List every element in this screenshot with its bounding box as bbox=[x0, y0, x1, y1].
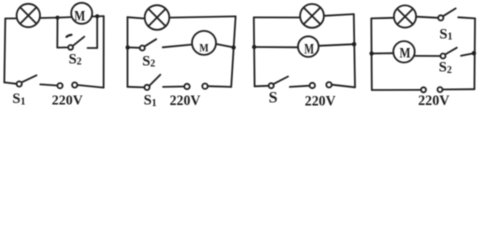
switch S pivot C3 bbox=[269, 83, 274, 88]
switch S2 contact tick C1 bbox=[67, 35, 72, 37]
wire motor to right rail C1 bbox=[92, 15, 104, 17]
wire motor to switch S2 C4 bbox=[415, 55, 441, 57]
battery terminal left C3 bbox=[310, 83, 315, 88]
wire right rail C3 bbox=[354, 14, 355, 87]
switch S2 lever C2 bbox=[145, 39, 157, 46]
wire bottom-left to terminal C4 bbox=[372, 89, 421, 91]
lamp L2 (circle with X) bbox=[145, 5, 170, 30]
wire right rail C1 bbox=[103, 16, 105, 88]
battery terminal left C4 bbox=[421, 87, 426, 92]
wire terminal to bottom-right corner C3 bbox=[332, 85, 355, 88]
switch S2 lever C1 bbox=[73, 37, 85, 46]
wire switch to node H C4 bbox=[461, 53, 474, 56]
battery terminal right C2 bbox=[202, 84, 207, 89]
svg-text:M: M bbox=[199, 41, 208, 55]
wire node A to motor C1 bbox=[58, 16, 72, 19]
svg-text:S: S bbox=[269, 90, 278, 107]
wire switch to top-right corner C4 bbox=[458, 17, 475, 18]
svg-text:S2: S2 bbox=[142, 53, 155, 69]
svg-text:220V: 220V bbox=[305, 93, 336, 109]
node E junction dot C3 bbox=[252, 45, 256, 49]
node F junction dot C3 bbox=[352, 42, 356, 46]
wire bottom-left to switch S1 C2 bbox=[128, 86, 145, 89]
switch S2 pivot C2 bbox=[140, 46, 145, 51]
switch S1 lever C1 bbox=[22, 75, 37, 82]
switch S lever C3 bbox=[273, 77, 288, 85]
switch S1 lever C2 bbox=[149, 75, 160, 86]
svg-text:220V: 220V bbox=[52, 93, 83, 108]
wire bottom-left to switch S C3 bbox=[255, 85, 269, 88]
wire lamp to node A C1 bbox=[40, 17, 58, 19]
lamp L4 (circle with X) bbox=[394, 5, 416, 27]
wire lamp to top-right corner C2 bbox=[169, 16, 235, 17]
wire switch to inner box right C1 bbox=[88, 47, 98, 49]
svg-text:M: M bbox=[400, 46, 411, 62]
wire node C to switch S2 C2 bbox=[128, 46, 140, 48]
wire terminal to bottom-right corner C2 bbox=[208, 85, 232, 88]
wire node E to motor C3 bbox=[254, 46, 298, 48]
wire left rail C2 bbox=[127, 17, 129, 87]
wire switch to terminal C2 bbox=[163, 86, 184, 88]
svg-text:M: M bbox=[304, 41, 314, 57]
switch S1 pivot C1 bbox=[17, 81, 22, 86]
battery terminal left C1 bbox=[57, 83, 62, 88]
wire switch to terminal C1 bbox=[40, 84, 57, 85]
battery terminal left C2 bbox=[184, 84, 189, 89]
wire switch to motor C2 bbox=[163, 45, 192, 48]
motor M3 bbox=[298, 36, 319, 57]
wire inner box right vertical C1 bbox=[96, 16, 98, 48]
node H junction dot C4 bbox=[472, 51, 476, 55]
lamp L3 (circle with X) bbox=[300, 4, 324, 28]
wire inner box left vertical C1 bbox=[56, 18, 58, 48]
wire lamp to switch S1 C4 bbox=[416, 17, 438, 18]
wire switch to terminal C3 bbox=[290, 86, 310, 87]
wire right rail C4 bbox=[473, 18, 476, 89]
battery terminal right C4 bbox=[438, 87, 443, 92]
wire top-left C1 bbox=[5, 17, 16, 19]
node A junction dot C1 bbox=[56, 16, 60, 20]
svg-text:220V: 220V bbox=[418, 93, 450, 109]
wire inner box bottom-left to switch C1 bbox=[57, 46, 68, 48]
switch S2 pivot C1 bbox=[68, 45, 73, 50]
wire top-left C3 bbox=[254, 16, 300, 18]
node C junction dot C2 bbox=[126, 45, 130, 49]
wire node G to motor C4 bbox=[372, 52, 394, 54]
battery terminal right C3 bbox=[326, 82, 331, 87]
wire motor to node D C2 bbox=[216, 44, 234, 47]
svg-text:220V: 220V bbox=[170, 93, 201, 109]
motor M2 bbox=[192, 31, 216, 55]
svg-text:M: M bbox=[74, 9, 85, 25]
node G junction dot C4 bbox=[369, 51, 373, 55]
switch S1 pivot C2 bbox=[144, 85, 149, 90]
motor M1 bbox=[71, 3, 92, 25]
wire top-left C2 bbox=[128, 17, 145, 18]
wire left rail C1 bbox=[4, 19, 5, 83]
lamp L1 (circle with X) bbox=[17, 4, 40, 27]
wire left rail C4 bbox=[370, 18, 373, 90]
wire terminal to bottom-right corner C4 bbox=[443, 88, 475, 90]
battery terminal right C1 bbox=[72, 82, 77, 87]
wire left rail C3 bbox=[253, 17, 256, 86]
switch S1 lever C4 bbox=[443, 8, 456, 16]
wire motor to node F C3 bbox=[319, 44, 354, 46]
svg-text:S1: S1 bbox=[12, 91, 25, 107]
wire top-left C4 bbox=[371, 17, 394, 20]
svg-text:S1: S1 bbox=[144, 92, 157, 108]
svg-text:S2: S2 bbox=[439, 60, 452, 76]
switch S1 pivot C4 bbox=[438, 15, 443, 20]
svg-text:S1: S1 bbox=[439, 26, 452, 42]
switch S2 lever C4 bbox=[445, 48, 457, 55]
node D junction dot C2 bbox=[231, 45, 235, 49]
wire lamp to top-right corner C3 bbox=[324, 14, 354, 16]
wire bottom-left to switch S1 C1 bbox=[4, 82, 16, 83]
switch S2 pivot C4 bbox=[441, 54, 446, 59]
wire right rail C2 bbox=[231, 16, 235, 87]
motor M4 bbox=[393, 41, 414, 62]
wire terminal to bottom-right corner C1 bbox=[77, 85, 103, 88]
node B junction dot C1 bbox=[95, 14, 99, 18]
svg-text:S2: S2 bbox=[69, 51, 82, 67]
